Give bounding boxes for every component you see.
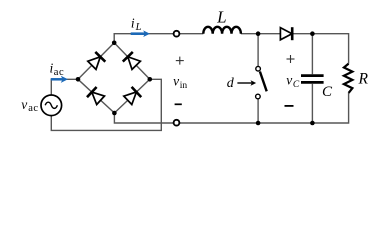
wire output diode to top-right corner and down <box>292 34 348 64</box>
wire bridge bottom node to bottom-left terminal <box>114 113 173 123</box>
ac source Vac <box>41 95 62 116</box>
switch S (ideal switch, open) <box>256 66 267 98</box>
wire source top lead to bridge left node <box>51 79 78 95</box>
label + (v_C) <box>287 55 295 63</box>
node: bridge top <box>112 41 117 46</box>
svg-text:C: C <box>322 84 333 100</box>
wire bridge edge bottom-right <box>114 79 149 113</box>
node J1 (inductor/switch/diode) <box>256 31 261 36</box>
resistor R <box>344 64 353 93</box>
svg-text:L: L <box>135 22 142 33</box>
node: bridge right <box>148 77 153 82</box>
node: capacitor bottom junction <box>310 121 315 126</box>
wire bridge top node to top-left terminal <box>114 34 173 43</box>
wire capacitor bottom lead <box>311 84 313 123</box>
wire switch bottom lead <box>257 99 259 123</box>
diode D2 (bridge upper-right) <box>123 52 141 70</box>
current arrow i_L <box>131 30 150 37</box>
diode D5 (output, on top rail) <box>280 27 292 40</box>
wire bridge edge left-top <box>78 43 114 80</box>
label i_ac <box>50 60 65 78</box>
label v_C <box>286 72 300 90</box>
svg-text:i: i <box>131 16 135 31</box>
svg-text:ac: ac <box>54 67 64 78</box>
wire right rail below resistor <box>179 93 348 123</box>
wire switch top lead <box>257 34 259 67</box>
svg-text:ac: ac <box>28 103 38 114</box>
node J2 (diode/capacitor junction) <box>310 31 315 36</box>
wire top terminal to inductor <box>179 33 203 35</box>
current arrow i_ac <box>51 76 68 83</box>
label d with arrow <box>227 76 256 91</box>
label - (v_in) <box>175 103 182 105</box>
label v_ac <box>21 97 38 114</box>
wire inductor to output diode <box>241 33 281 35</box>
capacitor C <box>301 76 324 83</box>
wire bridge edge right-top <box>114 43 150 80</box>
svg-text:v: v <box>21 97 27 112</box>
svg-text:d: d <box>227 76 235 91</box>
node: bridge left <box>76 77 81 82</box>
label v_in <box>173 74 187 91</box>
node: switch bottom junction <box>256 121 261 126</box>
diode D3 (bridge lower-left) <box>87 87 105 105</box>
diode D1 (bridge upper-left) <box>88 52 106 70</box>
svg-text:in: in <box>180 81 188 91</box>
terminal bottom-left (open circle) <box>174 120 180 126</box>
svg-text:L: L <box>216 8 226 27</box>
svg-text:v: v <box>173 74 179 89</box>
label + (v_in) <box>176 57 184 65</box>
svg-text:C: C <box>293 80 300 90</box>
diode D4 (bridge lower-right) <box>124 87 141 105</box>
label i_L <box>131 16 142 33</box>
wire source bottom return to bridge right node <box>51 79 161 130</box>
wire capacitor top lead <box>311 34 313 74</box>
node: bridge bottom <box>112 111 117 116</box>
wire bridge edge bottom-left <box>78 79 114 113</box>
svg-text:R: R <box>357 70 368 87</box>
svg-text:v: v <box>286 72 292 87</box>
terminal top-left (open circle) <box>174 31 180 37</box>
inductor L <box>203 27 241 34</box>
label - (v_C) <box>285 105 294 107</box>
